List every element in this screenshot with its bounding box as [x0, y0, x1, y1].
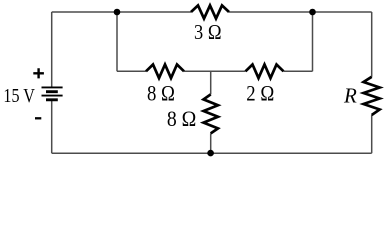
svg-text:15 V: 15 V [3, 85, 35, 107]
wire right side upper [371, 12, 373, 77]
svg-text:8 Ω: 8 Ω [147, 81, 175, 106]
svg-text:2 Ω: 2 Ω [246, 81, 274, 106]
wire left side lower [51, 100, 53, 153]
wire bottom side [52, 152, 372, 154]
battery V1 15 V [42, 87, 63, 99]
battery plus sign [33, 68, 44, 78]
svg-text:8 Ω: 8 Ω [167, 106, 197, 131]
resistor 3 ohm (top) [191, 5, 229, 18]
wire inner left vertical [116, 12, 118, 71]
wire center vertical branch [210, 71, 212, 153]
wire middle branch [117, 70, 313, 72]
wire top side [52, 11, 372, 13]
node junction top-left [114, 9, 121, 16]
wire right side lower [371, 115, 373, 153]
wire inner right vertical [312, 12, 314, 71]
battery minus sign [35, 117, 41, 119]
node junction bottom [207, 150, 214, 157]
svg-text:R: R [343, 84, 357, 108]
resistor R (right vertical) [364, 77, 380, 115]
resistor 2 ohm (middle right horizontal) [246, 65, 284, 79]
svg-text:3 Ω: 3 Ω [194, 20, 222, 44]
wire left side upper [51, 12, 53, 87]
resistor 8 ohm (middle left horizontal) [146, 65, 184, 79]
node junction top-right [309, 9, 316, 16]
resistor 8 ohm (center vertical) [204, 94, 219, 133]
